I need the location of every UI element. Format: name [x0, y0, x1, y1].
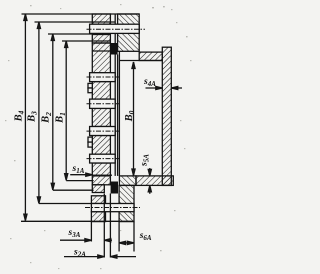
svg-text:s5A: s5A: [139, 154, 149, 167]
